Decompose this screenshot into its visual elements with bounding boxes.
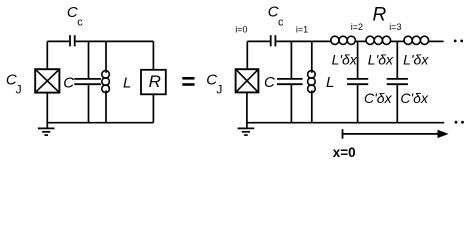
resistor R branch upper wire <box>152 41 154 69</box>
inductor L branch lower wire <box>105 90 107 122</box>
svg-text:i=1: i=1 <box>296 25 308 35</box>
capacitor C branch upper wire <box>88 41 90 78</box>
inductor L branch upper wire <box>105 41 107 72</box>
ellipsis dots top <box>454 40 457 43</box>
node i=2 upper wire <box>357 41 359 78</box>
series inductor L'dx 1 (coil) <box>331 36 356 44</box>
coupling capacitor Cc right circuit <box>271 35 276 46</box>
capacitor C right circuit <box>277 79 303 84</box>
ellipsis dots bottom <box>455 121 458 124</box>
svg-text:C: C <box>63 74 74 91</box>
svg-text:J: J <box>16 83 22 97</box>
svg-text:L'δx: L'δx <box>403 52 429 68</box>
ground symbol right <box>238 128 255 135</box>
svg-text:C: C <box>264 74 275 91</box>
inductor L branch upper wire right <box>311 41 313 72</box>
Josephson junction CJ right (crossed box) <box>236 69 259 92</box>
svg-text:R: R <box>373 5 387 26</box>
equals sign <box>182 77 194 80</box>
svg-text:L: L <box>326 74 334 91</box>
svg-text:i=3: i=3 <box>389 22 401 32</box>
top wire left segment to coupling capacitor <box>47 40 69 42</box>
inductor L right circuit (coil) <box>308 71 316 93</box>
capacitor C left circuit <box>74 79 101 84</box>
wire top vertical above junction right <box>246 41 248 69</box>
svg-text:L'δx: L'δx <box>332 52 358 68</box>
svg-text:c: c <box>77 16 83 28</box>
resistor R branch lower wire <box>152 94 154 122</box>
svg-text:x=0: x=0 <box>333 145 356 160</box>
series inductor L'dx 3 (coil) <box>404 36 429 44</box>
inductor L branch lower wire right <box>311 90 313 122</box>
x axis arrow <box>343 129 449 138</box>
capacitor C branch upper wire right <box>290 41 292 78</box>
svg-text:R: R <box>149 72 161 91</box>
node i=2 lower wire <box>357 85 359 123</box>
svg-text:i=2: i=2 <box>351 22 363 32</box>
wire below junction to ground node <box>46 93 48 129</box>
svg-text:L'δx: L'δx <box>368 52 394 68</box>
top wire from coupling cap to first series inductor <box>276 40 331 42</box>
svg-text:L: L <box>123 75 131 92</box>
shunt capacitor C'dx 1 <box>347 79 368 84</box>
svg-text:C'δx: C'δx <box>400 90 429 106</box>
capacitor C branch lower wire <box>88 85 90 123</box>
coupling capacitor Cc left circuit <box>70 35 75 46</box>
svg-text:c: c <box>278 16 284 28</box>
inductor L left circuit (coil) <box>102 71 110 93</box>
top wire segment to coupling capacitor right <box>247 40 269 42</box>
Josephson junction CJ (crossed box) <box>35 69 59 92</box>
node i=3 lower wire <box>396 85 398 123</box>
shunt capacitor C'dx 2 <box>387 79 408 84</box>
series inductor L'dx 2 (coil) <box>366 36 391 44</box>
node i=3 upper wire <box>396 41 398 78</box>
svg-text:i=0: i=0 <box>235 24 247 34</box>
svg-text:C'δx: C'δx <box>364 90 393 106</box>
wire between coil2 and coil3 <box>390 40 404 42</box>
wire below junction right to ground <box>246 92 248 128</box>
bottom wire right circuit <box>247 122 444 124</box>
top wire after coil3 <box>428 40 444 42</box>
svg-text:J: J <box>216 83 222 97</box>
top wire right of coupling capacitor <box>76 40 154 42</box>
wire top-left vertical above junction <box>46 41 48 69</box>
wire between coil1 and node i=2 <box>355 40 366 42</box>
bottom wire left circuit <box>46 122 153 124</box>
resistor R (boxed) left circuit <box>141 70 166 95</box>
ground symbol left <box>38 128 55 135</box>
capacitor C branch lower wire right <box>290 85 292 123</box>
